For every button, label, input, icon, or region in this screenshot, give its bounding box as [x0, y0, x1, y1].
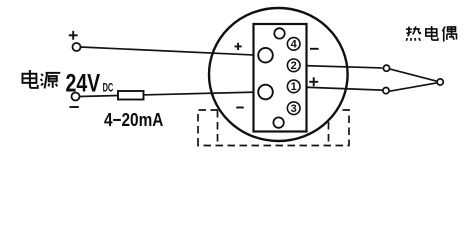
svg-text:2: 2 [291, 60, 297, 72]
svg-text:24V: 24V [66, 69, 101, 97]
svg-text:4−20mA: 4−20mA [104, 110, 163, 131]
svg-text:4: 4 [291, 39, 298, 51]
svg-text:DC: DC [103, 82, 114, 95]
svg-text:3: 3 [291, 103, 297, 115]
svg-text:1: 1 [291, 81, 297, 93]
